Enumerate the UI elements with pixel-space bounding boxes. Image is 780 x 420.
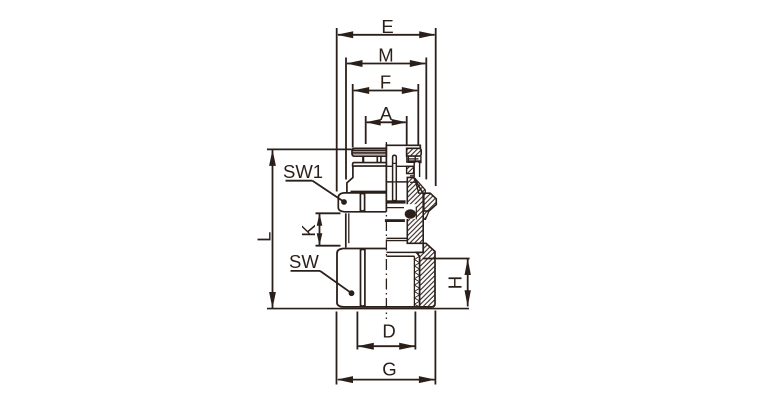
- upper body exterior outline: [347, 166, 353, 193]
- ring lower tab: [415, 156, 421, 162]
- release button (exterior left half): [352, 148, 386, 156]
- extension line G right: [434, 311, 436, 385]
- hex SW face line left: [360, 249, 362, 307]
- svg-text:SW1: SW1: [283, 161, 323, 182]
- collet leg right a: [376, 156, 378, 162]
- flange section bottom line: [386, 165, 418, 167]
- extension line E right: [435, 28, 437, 186]
- leader SW diagonal: [320, 271, 351, 293]
- dimension F right arrow: [402, 87, 419, 94]
- leader SW1 underline: [286, 180, 313, 182]
- washer under hex corner (hatched): [423, 211, 429, 219]
- extension line G left: [336, 312, 338, 385]
- cap flange (exterior): [353, 163, 387, 166]
- svg-text:SW: SW: [289, 251, 319, 272]
- extension line A left: [365, 116, 367, 144]
- dimension M right arrow: [410, 60, 427, 67]
- hex SW fill: [337, 249, 386, 307]
- hex SW face line right: [364, 249, 366, 307]
- dimension A left arrow: [366, 119, 381, 126]
- shoulder line right of centerline: [386, 181, 407, 183]
- release button stripe line 2: [352, 153, 386, 155]
- dimension G line: [338, 379, 434, 381]
- sleeve joint line b: [393, 181, 397, 183]
- extension line L top: [267, 148, 352, 150]
- hex SW corner blob bottom: [361, 304, 365, 307]
- hex SW1 outline (exterior): [338, 193, 386, 212]
- o-ring groove right wall: [415, 207, 417, 220]
- collet leg right b: [380, 156, 382, 162]
- hex SW1 corner section (hatched): [424, 193, 437, 211]
- thread bore line: [413, 256, 415, 307]
- tube support sleeve: [393, 155, 397, 200]
- groove bottom band: [385, 219, 405, 222]
- upper body chamfer shoulder line: [351, 190, 386, 192]
- leader SW1 dot: [341, 199, 347, 205]
- vertical bar section: [414, 162, 419, 177]
- release button stripe line 1: [352, 151, 386, 153]
- svg-text:G: G: [382, 359, 396, 380]
- dimension E left arrow: [337, 31, 354, 38]
- hex SW1 fill: [338, 193, 386, 212]
- extension line A right: [406, 116, 408, 145]
- dimension M left arrow: [346, 60, 363, 67]
- extension line D left: [356, 312, 358, 350]
- dimension K top arrow: [317, 213, 323, 226]
- flange section band: [408, 160, 422, 163]
- centerline (dash-dot): [385, 142, 387, 319]
- extension line M left: [345, 58, 347, 180]
- dimension L top arrow: [269, 149, 276, 166]
- dimension F line: [354, 90, 418, 92]
- svg-text:F: F: [380, 71, 391, 92]
- button section ring (hatched): [407, 148, 422, 156]
- middle section inner line: [348, 213, 350, 243]
- extension line K bottom: [316, 245, 341, 247]
- guide ring chevron (hatched): [414, 178, 425, 194]
- leader SW dot: [349, 290, 355, 296]
- hex SW corner blob top: [361, 249, 365, 252]
- o-ring (solid): [405, 209, 416, 219]
- wall below ring line b: [407, 156, 409, 163]
- section top face line: [386, 145, 420, 148]
- hex SW1 face line left: [359, 193, 361, 211]
- extension line bottom shared (L, H, body base): [267, 308, 469, 310]
- svg-text:H: H: [445, 276, 466, 289]
- dimension L bottom arrow: [269, 292, 276, 309]
- dimension A line: [367, 121, 406, 123]
- thread zigzag: [414, 256, 419, 307]
- collet finger joint line a: [410, 175, 416, 177]
- extension line F right: [417, 84, 419, 146]
- leader SW1 diagonal: [313, 181, 344, 202]
- svg-text:D: D: [382, 320, 395, 341]
- dimension D left arrow: [357, 343, 374, 350]
- bore top line a: [386, 251, 416, 253]
- extension line M right: [425, 58, 427, 180]
- collet finger joint line b: [410, 181, 416, 183]
- dimension K line: [319, 214, 321, 245]
- svg-text:L: L: [254, 232, 275, 242]
- svg-text:A: A: [380, 103, 393, 124]
- o-ring groove white notch: [400, 204, 416, 219]
- dimension F left arrow: [353, 87, 370, 94]
- hex SW outline (exterior): [337, 249, 431, 307]
- leader SW underline: [291, 270, 321, 272]
- collet leg left: [362, 156, 364, 162]
- hex SW1 corner blob bottom: [360, 209, 364, 212]
- dimension M line: [347, 63, 425, 65]
- bore top line b: [386, 255, 414, 257]
- step line b above thread: [386, 240, 407, 242]
- lower body section (hatched): [416, 243, 435, 307]
- dimension E right arrow: [419, 31, 436, 38]
- extension line F left: [352, 84, 354, 148]
- wall below ring line a: [406, 156, 408, 163]
- dimension H bottom arrow: [465, 290, 471, 307]
- extension line E left: [336, 28, 338, 192]
- flange section top line: [408, 158, 419, 160]
- sleeve joint line a: [393, 162, 397, 164]
- upper body section column (hatched): [407, 177, 423, 243]
- svg-text:M: M: [378, 45, 393, 66]
- step line a above thread: [386, 237, 407, 239]
- section boundary edge at centerline: [385, 144, 387, 212]
- seat band above o-ring: [386, 200, 405, 203]
- dimension G left arrow: [337, 376, 354, 383]
- extension line K top: [316, 212, 341, 214]
- svg-text:K: K: [298, 224, 319, 237]
- extension line H top: [423, 258, 470, 260]
- dimension G right arrow: [419, 376, 436, 383]
- extension line D right: [414, 312, 416, 350]
- hex SW1 face line right: [364, 193, 366, 211]
- dimension H top arrow: [465, 259, 471, 276]
- hex SW1 corner blob top: [360, 193, 364, 195]
- middle section left edge: [345, 213, 347, 247]
- collet piece section (hatched): [407, 166, 414, 173]
- svg-text:E: E: [381, 16, 393, 37]
- dimension E line: [338, 34, 435, 36]
- cap flange bottom line: [353, 165, 387, 167]
- dimension A right arrow: [392, 119, 407, 126]
- groove seat line: [386, 207, 404, 209]
- dimension D line: [358, 345, 414, 347]
- dimension L line: [272, 150, 274, 308]
- dimension H line: [467, 259, 469, 307]
- dimension D right arrow: [399, 343, 416, 350]
- release button stripe band: [352, 150, 386, 152]
- dimension K bottom arrow: [317, 233, 323, 246]
